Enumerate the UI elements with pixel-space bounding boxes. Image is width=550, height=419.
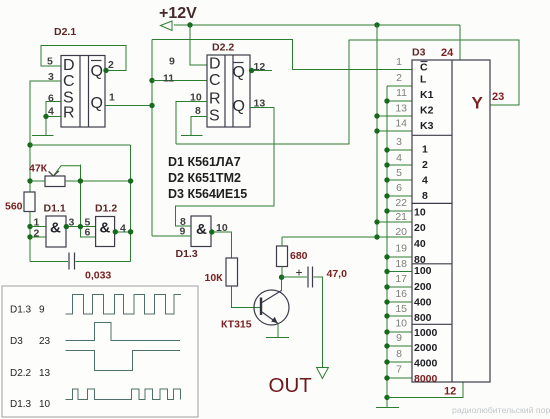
svg-text:D3: D3 [10, 336, 23, 347]
svg-text:14: 14 [395, 118, 407, 130]
OUT arrow [317, 368, 329, 379]
svg-text:D2.2: D2.2 [10, 368, 32, 379]
ground (D2.2) [181, 134, 203, 136]
svg-text:4: 4 [120, 223, 126, 235]
svg-text:&: & [50, 220, 61, 237]
svg-text:R: R [209, 91, 221, 108]
NAND gate D1.2 [96, 217, 115, 247]
wire D2.1 pin 3 (C) down to oscillator net [30, 81, 61, 192]
junction dot node/D2.2 C [149, 78, 154, 83]
junction dot D1.1 output [64, 224, 69, 229]
svg-text:8000: 8000 [414, 373, 438, 385]
waveform row 4 [66, 389, 181, 399]
resistor 10K [226, 258, 238, 286]
wire oscillator top line [30, 144, 131, 146]
wire node to D3 pin 1 (C) via jog [152, 40, 412, 70]
junction dot wiper / pot right lead [78, 178, 83, 183]
svg-text:4: 4 [48, 106, 54, 118]
svg-text:23: 23 [492, 91, 504, 103]
svg-text:1: 1 [109, 92, 115, 104]
svg-text:2: 2 [396, 72, 402, 84]
junction dot D2.1 Q-bar [103, 68, 108, 73]
svg-text:D1.3: D1.3 [10, 305, 32, 316]
svg-text:D2 К651ТМ2: D2 К651ТМ2 [168, 171, 241, 185]
wire pot left lead [30, 180, 45, 182]
wire +12V to D2.2 pin 9 (D input) [190, 25, 207, 65]
svg-text:400: 400 [414, 297, 432, 309]
junction dot D2.2 pin 12 [249, 68, 254, 73]
svg-text:18: 18 [395, 258, 407, 270]
svg-text:D: D [63, 57, 75, 74]
junction dot rail/D2.2 [187, 22, 192, 27]
svg-text:5: 5 [396, 167, 402, 179]
svg-text:560: 560 [5, 201, 23, 213]
wire D2.2 pin 8 (S) to ground [191, 117, 207, 136]
svg-text:20: 20 [395, 226, 407, 238]
waveform row 2 [66, 322, 181, 340]
svg-text:Y: Y [472, 94, 484, 113]
svg-text:24: 24 [441, 47, 454, 59]
svg-text:D1.3: D1.3 [176, 248, 198, 260]
svg-text:Q: Q [91, 95, 103, 112]
wire pot right lead [65, 180, 131, 182]
ground bus line left of D3 [386, 86, 388, 407]
svg-text:12: 12 [254, 61, 266, 73]
svg-text:47К: 47К [29, 163, 48, 175]
svg-text:D: D [209, 56, 221, 73]
svg-text:4: 4 [422, 175, 428, 187]
potentiometer 47K body [45, 176, 65, 187]
svg-text:10: 10 [414, 207, 426, 219]
svg-text:1: 1 [422, 144, 428, 156]
svg-text:K2: K2 [420, 105, 434, 117]
svg-text:13: 13 [395, 103, 407, 115]
wire D2.1 S and R pins to ground [46, 102, 61, 136]
wire 680 bottom to collector node [281, 267, 283, 278]
svg-text:6: 6 [48, 93, 54, 105]
svg-text:D1.2: D1.2 [95, 203, 117, 215]
junction dot D1.2 output / riser [128, 229, 133, 234]
svg-text:+12V: +12V [159, 5, 197, 22]
svg-text:2: 2 [422, 159, 428, 171]
NAND gate D1.1 [46, 216, 66, 247]
resistor 560 [24, 192, 35, 212]
svg-text:21: 21 [395, 211, 407, 223]
svg-text:D2.2: D2.2 [212, 42, 234, 54]
junction dots on +12V bus [374, 113, 379, 239]
junction dot D1.3 output [209, 229, 214, 234]
svg-text:0,033: 0,033 [85, 270, 111, 282]
wire D1.3 pin 9 from node [152, 235, 191, 237]
parts list text [168, 155, 247, 201]
svg-text:&: & [196, 221, 207, 238]
svg-text:R: R [63, 105, 75, 122]
svg-text:D1 К561ЛА7: D1 К561ЛА7 [168, 155, 241, 169]
svg-text:C: C [420, 62, 428, 74]
svg-text:40: 40 [414, 238, 426, 250]
svg-text:15: 15 [395, 303, 407, 315]
wire D1.2 output [115, 231, 131, 233]
D3 pin stubs from +12V bus [377, 116, 412, 222]
svg-text:17: 17 [395, 273, 407, 285]
ground (D3) [376, 407, 399, 409]
wire 10K bottom to transistor base [232, 286, 261, 307]
svg-text:6: 6 [396, 182, 402, 194]
svg-text:+: + [296, 266, 303, 280]
wire D1.1 input pins [30, 227, 46, 238]
transistor KT315 [254, 290, 289, 325]
svg-text:K3: K3 [420, 120, 434, 132]
junction dot 560 net / pot left lead [27, 178, 32, 183]
svg-text:47,0: 47,0 [327, 268, 348, 280]
wire Y feedback (D3 pin 23 to D2.2 R) [176, 40, 519, 144]
svg-text:6: 6 [85, 227, 91, 239]
svg-text:1000: 1000 [414, 327, 438, 339]
wire 560 bottom to gate inputs and capacitor [29, 212, 31, 262]
timing diagram box [2, 286, 198, 417]
wire D2.1 Q-bar feedback loop to D pin 5 [41, 46, 126, 71]
wire D1.2 output vertical riser [130, 145, 132, 261]
wire D2.2 pin 10 (R) from Y feedback [176, 102, 207, 145]
svg-text:4: 4 [396, 152, 402, 164]
waveform row 1 [66, 295, 182, 314]
wire D3 pin 12 return to ground [387, 382, 463, 398]
svg-text:L: L [420, 74, 427, 86]
junction dot rail/+12V bus [374, 22, 379, 27]
wire D2.2 Q-bar pin 12 stub [250, 70, 272, 72]
svg-text:100: 100 [414, 265, 432, 277]
svg-text:12: 12 [444, 386, 456, 398]
svg-text:2: 2 [108, 59, 114, 71]
junction dots on ground bus [384, 98, 389, 400]
svg-text:800: 800 [414, 312, 432, 324]
svg-text:10: 10 [395, 318, 407, 330]
svg-text:9: 9 [39, 305, 45, 316]
svg-text:КТ315: КТ315 [221, 319, 252, 331]
svg-text:S: S [209, 108, 220, 125]
svg-text:C: C [209, 72, 221, 89]
wire D2.1 Q output to node bus [105, 105, 152, 107]
junction dot collector node [279, 275, 284, 280]
svg-text:10К: 10К [205, 272, 224, 284]
capacitor 47,0 plates [308, 267, 313, 288]
junction dot node/D2.1 Q [149, 103, 154, 108]
wire capacitor bottom left [30, 260, 68, 262]
wire 680 top to +12V / D3 pin 20 line [282, 237, 412, 246]
svg-text:1: 1 [396, 56, 402, 68]
junction dot pot right lead / riser [128, 178, 133, 183]
wire capacitor bottom right [76, 260, 131, 262]
svg-text:D1.1: D1.1 [44, 203, 66, 215]
wire emitter down to ground [277, 324, 279, 338]
waveform row 3 [66, 351, 181, 371]
D3 pin stubs from ground bus [387, 86, 412, 378]
pot wiper arrowhead [49, 171, 59, 176]
svg-text:11: 11 [163, 73, 174, 85]
power +12V arrow symbol [161, 21, 173, 31]
wire node to D2.2 pin 11 (C) [152, 80, 207, 82]
junction dot D2.1 pin 4 [43, 114, 48, 119]
capacitor 0,033 plates [69, 253, 75, 270]
svg-text:10: 10 [39, 399, 51, 410]
svg-text:D3: D3 [412, 47, 426, 59]
svg-text:8: 8 [195, 105, 201, 117]
svg-text:11: 11 [396, 87, 407, 99]
svg-text:22: 22 [395, 197, 407, 209]
wire D1.3 output to 10K [211, 232, 232, 258]
junction dot D1.1 pin 2 [27, 234, 32, 239]
node vertical: D2.1 Q / D2.2 C / D1.3 pin9 [151, 40, 153, 236]
wire collector up to node [281, 277, 283, 291]
svg-text:20: 20 [414, 222, 426, 234]
wire +12V rail down to D3 pin 24 [459, 25, 461, 60]
svg-text:23: 23 [39, 336, 51, 347]
svg-text:K1: K1 [420, 89, 434, 101]
D3 left pin numbers [395, 56, 407, 376]
resistor 680 [277, 246, 288, 267]
svg-text:D2.1: D2.1 [54, 26, 76, 38]
svg-text:Q: Q [91, 63, 103, 80]
svg-text:3: 3 [396, 136, 402, 148]
wire +12V rail [174, 24, 460, 26]
wire +12V vertical bus left of D3 [376, 25, 378, 237]
wire D2.2 Q pin 13 to D1.3 pin 8 [176, 108, 275, 227]
svg-text:OUT: OUT [269, 374, 313, 397]
svg-text:2: 2 [34, 228, 40, 240]
flip-flop D2.1 [61, 56, 105, 128]
IC D3 body [412, 60, 490, 382]
svg-text:9: 9 [396, 332, 402, 344]
svg-text:7: 7 [396, 364, 402, 376]
svg-text:9: 9 [169, 56, 175, 68]
svg-text:D3 К564ИЕ15: D3 К564ИЕ15 [168, 187, 247, 201]
svg-text:4000: 4000 [414, 358, 438, 370]
flip-flop D2.2 [207, 55, 250, 127]
ground (transistor emitter) [266, 336, 289, 338]
D3 inner labels column [414, 62, 438, 386]
svg-text:радиолюбительский портал: радиолюбительский портал [452, 405, 550, 415]
NAND gate D1.3 [191, 216, 211, 247]
svg-text:16: 16 [395, 288, 407, 300]
svg-text:8: 8 [422, 190, 428, 202]
svg-text:13: 13 [39, 368, 51, 379]
wire D1.1 output to D1.2 inputs [66, 227, 96, 237]
svg-text:2000: 2000 [414, 342, 438, 354]
svg-text:Q: Q [233, 64, 245, 81]
wire collector node to capacitor 47,0 [282, 276, 307, 278]
junction dot D1.1 pin 1 [27, 224, 32, 229]
svg-text:8: 8 [396, 348, 402, 360]
junction dot 560 net / y145 line [27, 142, 32, 147]
wire capacitor to OUT [314, 277, 323, 367]
junction dot D1.2 output [113, 229, 118, 234]
svg-text:C: C [63, 73, 75, 90]
junction dot wiper joins inter-gate net [78, 224, 83, 229]
svg-text:200: 200 [414, 281, 432, 293]
pot wiper arm wire [53, 166, 80, 176]
svg-text:Q: Q [233, 98, 245, 115]
svg-text:19: 19 [395, 243, 407, 255]
ground (D2.1) [32, 134, 54, 136]
svg-text:680: 680 [290, 250, 308, 262]
svg-text:D1.3: D1.3 [10, 399, 32, 410]
svg-text:&: & [100, 220, 111, 237]
